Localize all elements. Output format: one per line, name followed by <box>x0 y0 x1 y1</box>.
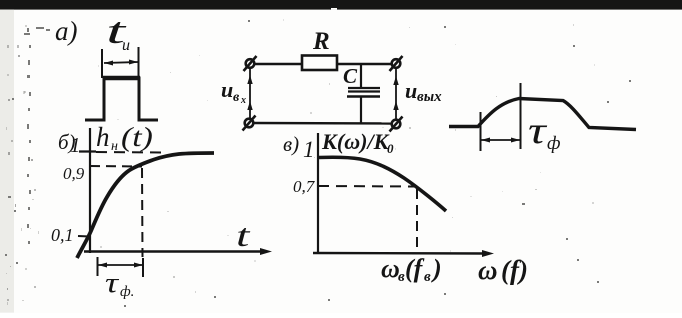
input voltage arrow line <box>247 69 252 118</box>
terminal top-left <box>244 56 257 71</box>
svg-text:ω: ω <box>381 254 400 283</box>
svg-text:(t): (t) <box>121 122 153 152</box>
svg-text:h: h <box>96 122 110 152</box>
svg-text:и: и <box>122 37 130 54</box>
resistor R <box>302 56 337 71</box>
level 0,1 tick <box>78 235 90 238</box>
rise-time left marker line <box>480 112 482 151</box>
svg-text:(f): (f) <box>501 255 528 285</box>
frequency response curve <box>319 157 446 211</box>
label tau_f rise time <box>528 109 561 154</box>
K graph vertical axis <box>317 133 319 253</box>
terminal bottom-right <box>390 117 403 132</box>
svg-text:ф.: ф. <box>120 284 134 300</box>
svg-text:0,9: 0,9 <box>63 164 85 183</box>
terminal top-right <box>390 56 403 71</box>
svg-text:ф: ф <box>547 133 561 154</box>
output voltage arrow line <box>393 69 398 119</box>
label w(f) axis <box>478 255 528 285</box>
svg-text:τ: τ <box>105 268 120 299</box>
svg-text:0,1: 0,1 <box>51 225 74 245</box>
svg-text:): ) <box>431 254 442 283</box>
svg-text:1: 1 <box>70 133 81 157</box>
svg-text:0: 0 <box>387 141 394 156</box>
label tau_f. under h graph <box>105 268 134 300</box>
input pulse waveform <box>85 78 158 120</box>
level 1 tick <box>79 150 96 152</box>
pulse left extension line <box>101 49 103 78</box>
vertical dashed line at 0,9 crossing <box>141 168 144 257</box>
svg-text:C: C <box>343 64 358 88</box>
svg-text:(f: (f <box>405 254 425 283</box>
h graph vertical axis <box>89 128 91 253</box>
rise-time right marker line <box>520 83 522 149</box>
tau dimension left extension <box>97 257 99 276</box>
svg-text:t: t <box>236 218 251 253</box>
terminal bottom-left <box>243 116 256 131</box>
capacitor C <box>347 64 380 123</box>
step response curve <box>77 153 214 258</box>
label K(w)/K0 frequency response <box>321 129 394 156</box>
svg-text:0,7: 0,7 <box>293 177 316 196</box>
vertical dashed line at w_v <box>416 189 418 252</box>
wire top left segment <box>255 63 302 65</box>
svg-text:1: 1 <box>303 137 315 162</box>
label w_v(f_v) cutoff frequency <box>381 254 442 285</box>
svg-text:в: в <box>424 269 431 285</box>
label h_n(t) step response <box>96 122 153 154</box>
rise-time dimension arrow <box>481 138 520 143</box>
label u_vx input voltage <box>221 77 246 106</box>
label t_i pulse duration <box>106 10 130 54</box>
svg-text:τ: τ <box>528 109 548 151</box>
output pulse response waveform <box>449 99 636 130</box>
level 1 dashed line <box>96 151 162 154</box>
wire bottom <box>254 122 391 125</box>
svg-text:х: х <box>240 95 246 106</box>
label u_vyx output voltage <box>405 78 442 105</box>
pulse duration dimension arrow <box>104 60 138 66</box>
svg-text:u: u <box>405 78 417 103</box>
tau dimension arrow <box>98 263 143 268</box>
svg-text:К(ω)/К: К(ω)/К <box>321 129 390 154</box>
svg-text:в): в) <box>283 132 299 156</box>
level 0,9 dashed line <box>90 165 142 168</box>
h graph horizontal axis with arrow <box>84 248 272 255</box>
svg-text:u: u <box>221 77 233 102</box>
svg-text:R: R <box>312 28 330 55</box>
pulse right extension line <box>138 47 140 78</box>
K graph horizontal axis with arrow <box>313 250 494 257</box>
svg-text:а): а) <box>55 16 78 46</box>
svg-text:в: в <box>233 90 240 105</box>
svg-text:ω: ω <box>478 255 498 285</box>
pulse top thick stroke <box>103 76 140 81</box>
tau dimension right extension <box>142 258 144 277</box>
level 0,7 dashed line <box>318 185 417 188</box>
svg-text:в: в <box>398 269 405 285</box>
wire top right segment <box>337 63 392 65</box>
svg-text:вых: вых <box>417 89 442 105</box>
